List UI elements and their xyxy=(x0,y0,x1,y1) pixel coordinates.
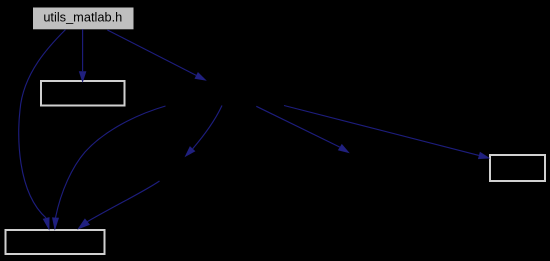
edge hidden node N1 to hidden node C xyxy=(256,106,350,153)
node2 (white-bordered node, label hidden) xyxy=(41,81,125,106)
arrowhead of edge utils_matlab.h to hidden node N1 xyxy=(195,72,207,81)
edge hidden node N1 to right node xyxy=(284,106,490,160)
arrowhead of edge utils_matlab.h to bottom node (outer left curve) xyxy=(43,217,50,231)
arrowhead of edge hidden node N1 to hidden node B xyxy=(185,146,196,157)
arrowhead of edge hidden node N1 to bottom node (inner curve) xyxy=(52,217,59,230)
arrowhead of edge utils_matlab.h to node2 xyxy=(79,71,87,83)
edge utils_matlab.h to hidden node N1 xyxy=(107,30,206,81)
edge utils_matlab.h to node2 xyxy=(79,29,87,83)
right node (white-bordered node, label hidden) xyxy=(490,155,545,181)
edge hidden node N1 to hidden node B xyxy=(185,106,223,158)
arrowhead of edge hidden node N1 to hidden node C xyxy=(338,144,350,153)
edge utils_matlab.h to bottom node (outer left curve) xyxy=(19,30,66,231)
svg-text:utils_matlab.h: utils_matlab.h xyxy=(43,10,122,25)
edge hidden node B to bottom node xyxy=(77,181,159,230)
node utils_matlab.h (root node, grey filled) xyxy=(33,8,134,30)
arrowhead of edge hidden node N1 to right node xyxy=(478,152,490,159)
bottom node (white-bordered node, label hidden) xyxy=(6,230,105,254)
arrowhead of edge hidden node B to bottom node xyxy=(77,218,90,229)
edge hidden node N1 to bottom node (inner curve) xyxy=(52,106,166,231)
